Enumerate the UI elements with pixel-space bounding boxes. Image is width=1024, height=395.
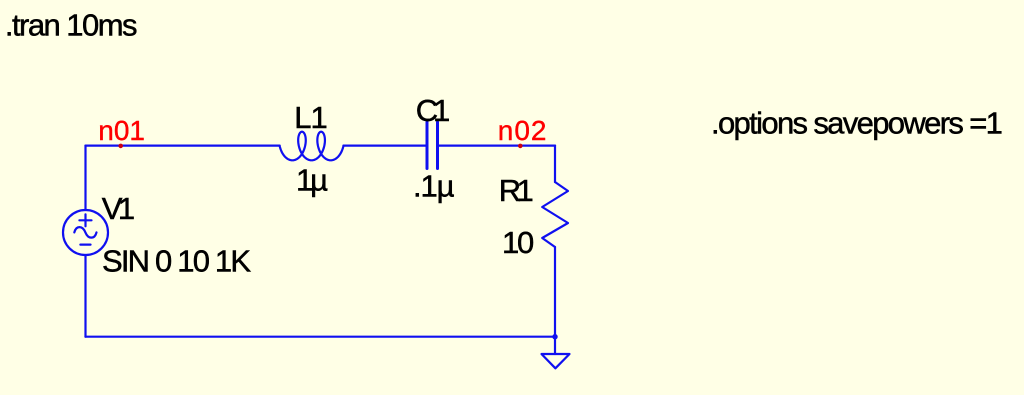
svg-text:V1: V1: [102, 191, 134, 226]
svg-text:SIN 0 10 1K: SIN 0 10 1K: [102, 244, 251, 279]
svg-text:.options savepowers =1: .options savepowers =1: [711, 105, 1002, 140]
svg-text:C1: C1: [416, 93, 449, 128]
wire capacitor to top-right corner n02: [439, 145, 555, 147]
node dot n01: [118, 144, 123, 149]
svg-text:R1: R1: [499, 173, 533, 208]
V1 sine wave: [74, 227, 96, 238]
capacitor C1 left plate: [426, 122, 429, 169]
svg-text:.1µ: .1µ: [413, 168, 455, 203]
wire left vertical upper (n01 to V1 top): [84, 146, 86, 210]
svg-text:.tran 10ms: .tran 10ms: [5, 8, 137, 43]
node dot n02: [518, 144, 523, 149]
svg-text:n01: n01: [98, 115, 144, 146]
V1 minus sign: [80, 244, 90, 246]
wire ground stub: [554, 337, 556, 354]
wire bottom horizontal: [86, 336, 556, 338]
svg-text:n02: n02: [498, 115, 546, 146]
V1 plus sign: [79, 214, 91, 226]
inductor L1 coil: [280, 132, 344, 161]
ground symbol: [542, 354, 570, 368]
svg-text:10: 10: [502, 225, 534, 260]
resistor R1 zigzag: [542, 182, 568, 247]
svg-text:L1: L1: [294, 100, 326, 135]
wire coil to capacitor: [344, 145, 426, 147]
capacitor C1 right plate: [436, 122, 439, 169]
wire left vertical lower (V1 bottom to corner): [84, 255, 86, 337]
voltage source V1 circle: [63, 210, 108, 255]
wire top-left horizontal n01 segment: [86, 145, 280, 147]
wire resistor bottom lead: [554, 247, 556, 337]
svg-text:1µ: 1µ: [296, 162, 328, 197]
wire right vertical lead to resistor: [554, 146, 556, 182]
junction dot at resistor/ground: [552, 334, 557, 339]
